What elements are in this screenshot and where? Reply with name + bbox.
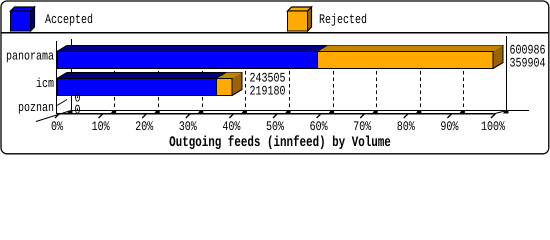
value labels panorama	[510, 45, 545, 54]
dashed gridlines (10%..90% back plane)	[115, 45, 464, 110]
front x-axis	[57, 113, 494, 115]
bar panorama (rejected segment top face)	[318, 46, 503, 52]
legend cube Rejected	[288, 7, 312, 31]
back y-axis	[71, 39, 73, 110]
legend label Accepted	[45, 14, 92, 26]
bar panorama (accepted segment top face)	[57, 45, 503, 52]
y-axis labels	[7, 52, 54, 62]
bar icm (accepted segment top face)	[57, 72, 242, 79]
x-axis % labels	[52, 121, 505, 130]
bar panorama (rejected side face)	[493, 45, 504, 69]
front y-axis	[56, 41, 58, 114]
value labels icm	[250, 73, 285, 82]
origin diagonal	[36, 111, 71, 122]
title	[170, 135, 391, 149]
outer rounded border	[1, 1, 549, 154]
legend label Rejected	[320, 14, 366, 26]
right end diagonal	[493, 111, 507, 115]
bar icm (rejected side face)	[232, 72, 243, 96]
bar panorama front faces	[57, 51, 494, 69]
back x-axis (full width)	[71, 110, 529, 111]
legend separator line	[1, 32, 549, 34]
value labels poznan	[75, 93, 80, 102]
bar icm (rejected segment top face)	[217, 73, 242, 79]
legend cube Accepted (3d cube)	[11, 7, 35, 31]
bar icm front faces	[57, 78, 233, 96]
poznan zero-bar left edge	[57, 100, 67, 106]
x-axis ticks (3d)	[55, 111, 509, 119]
right box line (100% back plane)	[506, 36, 508, 110]
